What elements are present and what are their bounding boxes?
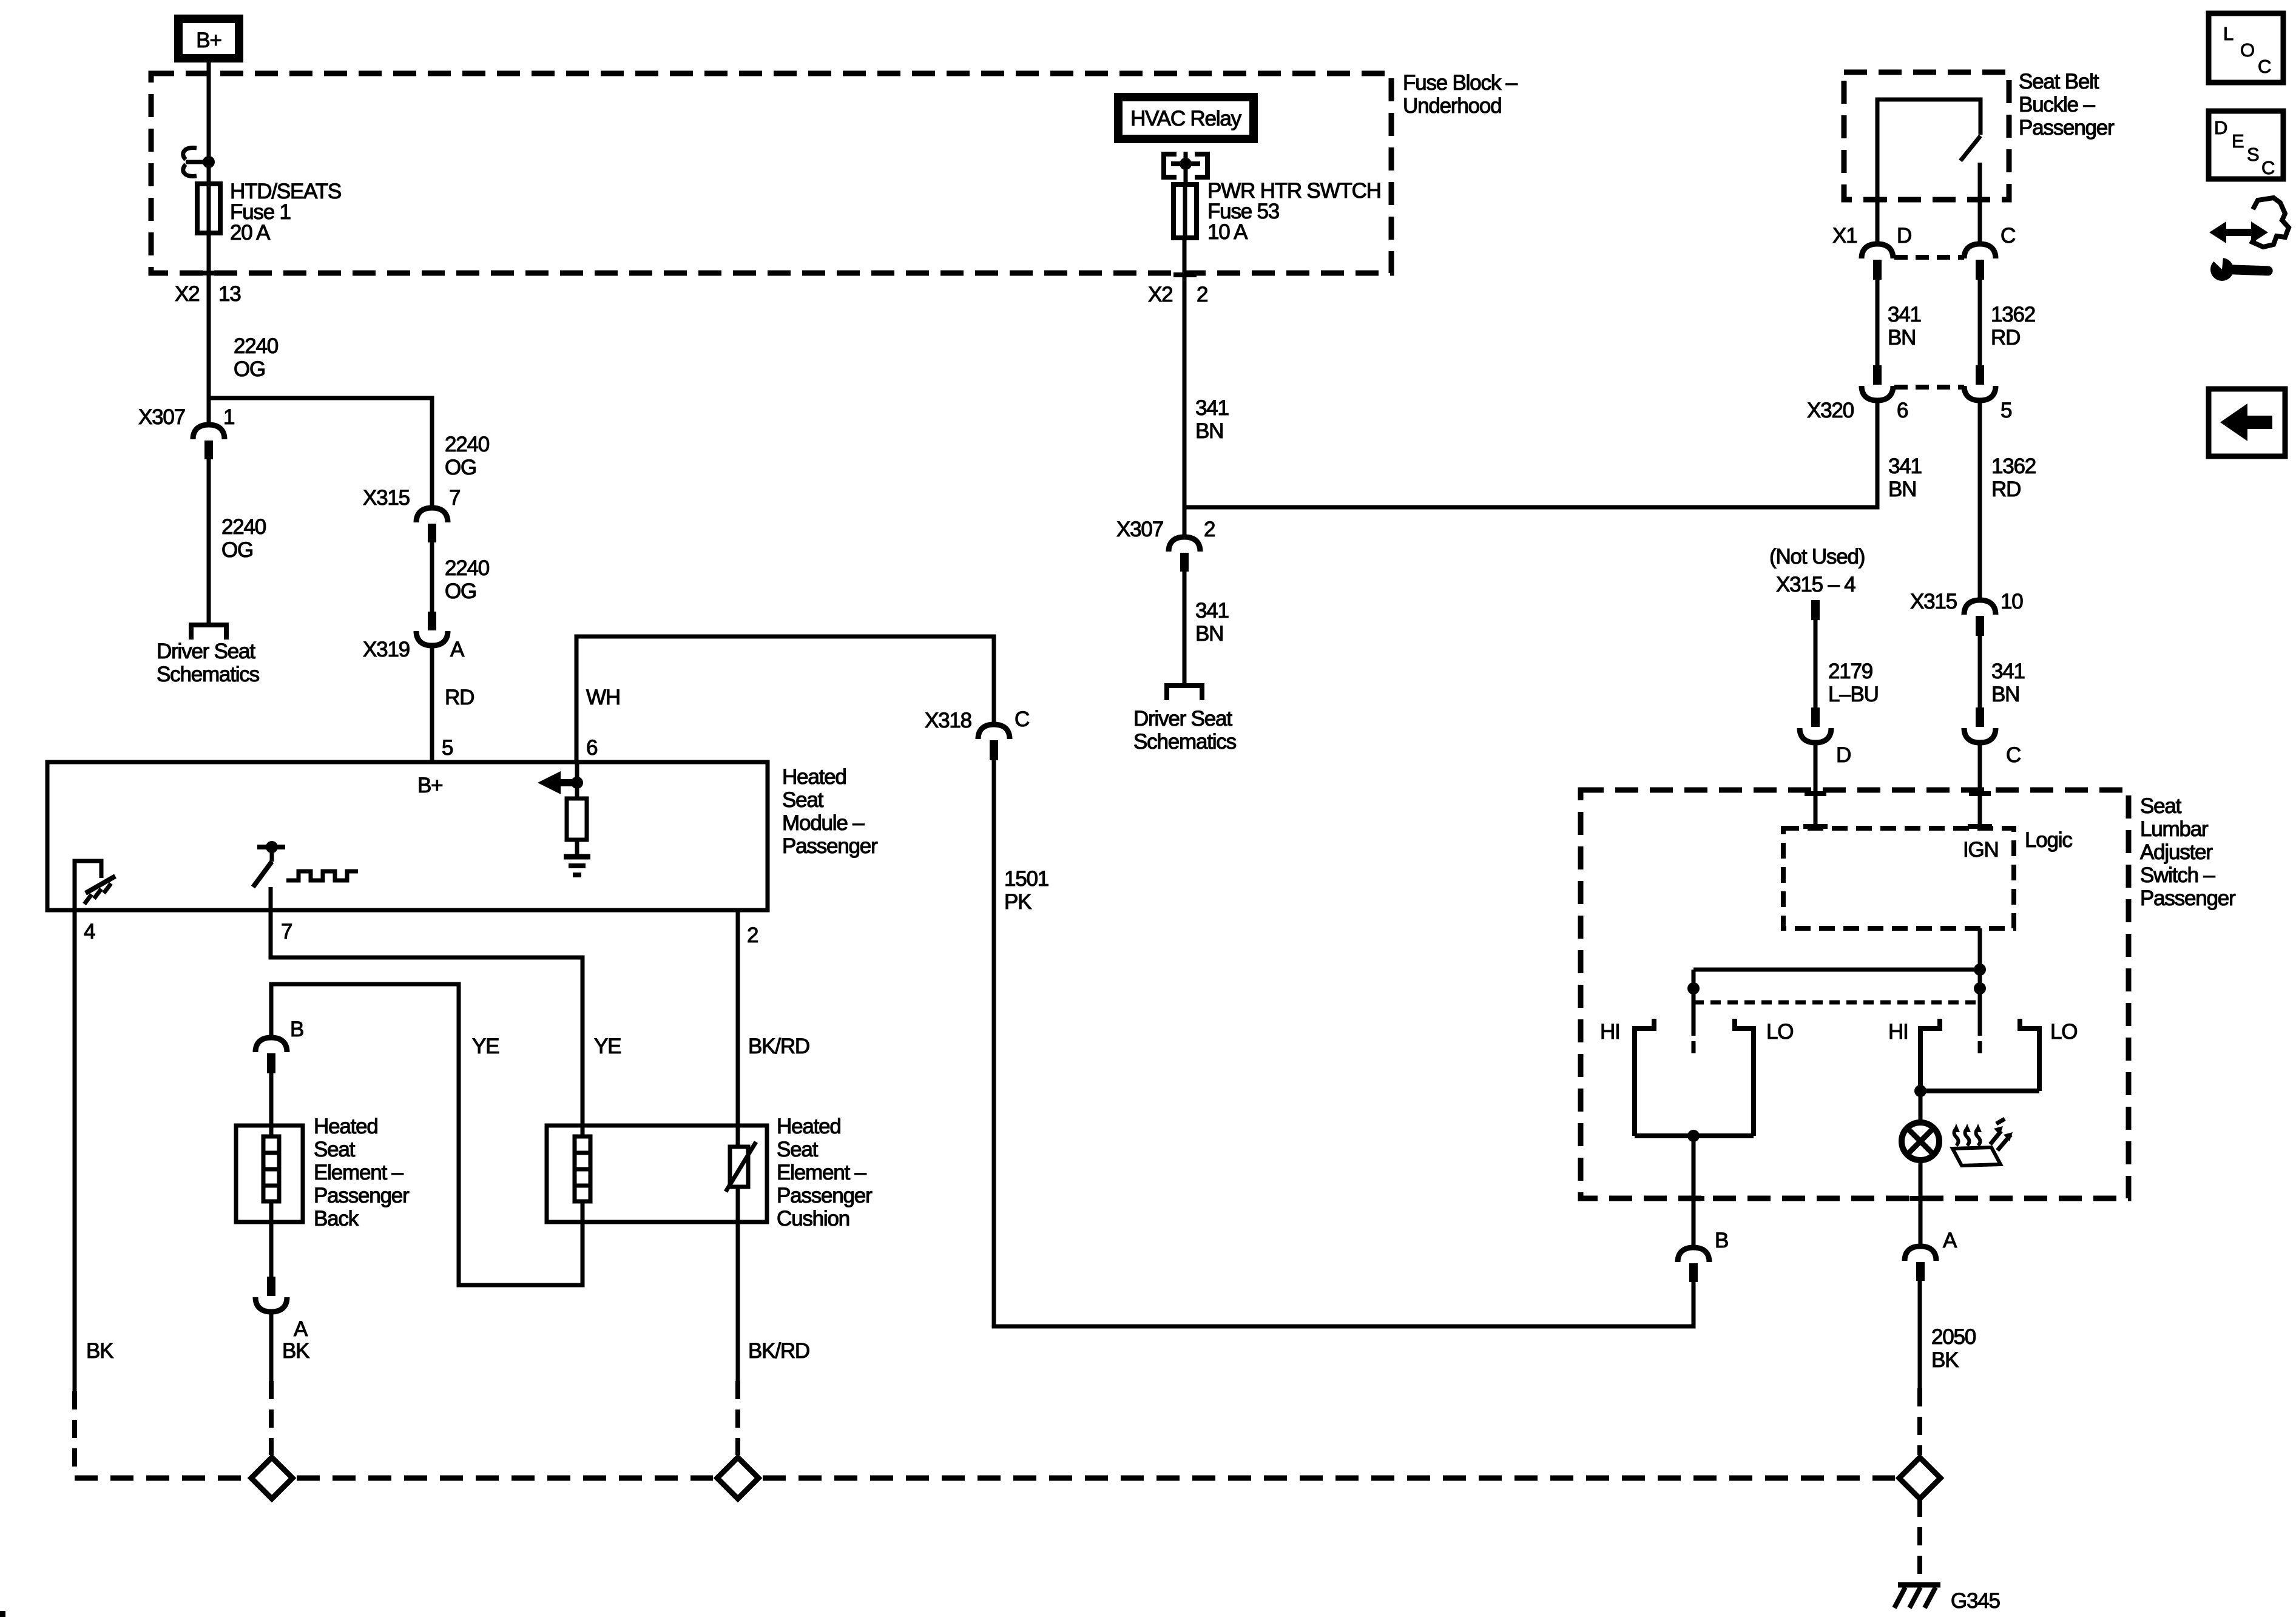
svg-text:6: 6 [586, 736, 597, 760]
wire label 341 BN [1195, 396, 1229, 443]
label X2 13 connector exit [175, 282, 241, 306]
heated seat element passenger back box [236, 1073, 303, 1222]
wire 1362 RD X1 to X320 [1980, 280, 2035, 366]
svg-text:Module –: Module – [782, 811, 865, 835]
svg-text:Seat: Seat [314, 1138, 356, 1161]
svg-text:Driver Seat: Driver Seat [157, 640, 255, 663]
connector X1 pin C [1964, 224, 2015, 280]
connector lumbar pin B [1678, 1229, 1728, 1282]
svg-text:BK/RD: BK/RD [748, 1035, 809, 1058]
svg-text:X319: X319 [363, 638, 410, 661]
svg-text:X315: X315 [363, 486, 410, 510]
wire branch X307-2 to seat belt buckle column [1184, 399, 1877, 507]
svg-text:X307: X307 [1116, 518, 1163, 541]
internal heater element wave [286, 871, 358, 880]
svg-text:2240: 2240 [221, 515, 266, 539]
svg-text:Logic: Logic [2025, 828, 2072, 852]
left switch LO contact [1735, 1019, 1793, 1136]
right switch LO contact [2020, 1019, 2077, 1091]
svg-text:RD: RD [1991, 326, 2020, 349]
ground bus dashed left drop [72, 1391, 77, 1476]
connector X320 dashed link [1894, 385, 1964, 390]
svg-text:2240: 2240 [445, 433, 490, 456]
connector X320 pin 6 [1807, 365, 1908, 422]
relay socket brackets [1164, 152, 1207, 182]
buckle switch [1868, 100, 1990, 200]
svg-text:Passenger: Passenger [777, 1184, 873, 1207]
connector X318 pin C [925, 707, 1029, 760]
wire label 2240 OG lower [221, 515, 266, 562]
junction dot relay pin [1180, 158, 1192, 170]
stub terminal X315-4 [1811, 600, 1820, 708]
svg-text:Heated: Heated [782, 765, 846, 789]
svg-text:4: 4 [84, 920, 95, 944]
svg-text:Passenger: Passenger [314, 1184, 410, 1207]
wire pin 6 WH to X318 [576, 636, 994, 762]
svg-text:Switch –: Switch – [2140, 863, 2215, 887]
svg-text:D: D [1897, 224, 1911, 248]
svg-text:B: B [290, 1018, 303, 1041]
svg-text:Heated: Heated [314, 1115, 378, 1138]
svg-text:IGN: IGN [1963, 838, 1999, 862]
left switch common [1635, 1130, 1754, 1247]
svg-text:Back: Back [314, 1207, 359, 1230]
indicator lamp [1902, 1122, 1939, 1160]
wire 1501 PK [994, 760, 1693, 1326]
wire switch feed bus [1693, 970, 1980, 1036]
svg-text:Seat: Seat [2140, 794, 2182, 818]
svg-text:Passenger: Passenger [2019, 116, 2115, 140]
svg-text:BK: BK [1931, 1348, 1959, 1372]
svg-text:HI: HI [1888, 1020, 1908, 1044]
wire fuse1 to X307 pin1 [198, 233, 221, 425]
label Fuse Block - Underhood [1403, 71, 1518, 118]
svg-text:OG: OG [445, 579, 476, 603]
wire branch to X315 pin7 [209, 398, 432, 508]
node X307 pin 1 in-line connector [138, 405, 234, 459]
wire label 2240 OG below X315 [445, 556, 490, 603]
power symbol B+ [178, 19, 239, 58]
svg-text:Schematics: Schematics [157, 663, 260, 686]
label Heated Seat Module - Passenger [782, 765, 878, 858]
svg-text:341: 341 [1195, 599, 1229, 623]
svg-text:G345: G345 [1951, 1589, 2000, 1613]
svg-text:1362: 1362 [1991, 303, 2035, 326]
wire B+ to fuse 1 [207, 58, 211, 181]
svg-text:5: 5 [442, 736, 453, 760]
logic dashed box [1783, 828, 2014, 928]
svg-text:2: 2 [1197, 283, 1207, 306]
svg-text:D: D [2214, 117, 2227, 138]
right switch HI contact [1888, 1019, 1940, 1091]
svg-text:E: E [2232, 130, 2244, 152]
svg-text:B+: B+ [417, 774, 442, 797]
icon LOC box [2209, 13, 2283, 83]
connector X1 pin D [1832, 224, 1911, 280]
wire fuse53 down to X307 pin2 [1173, 238, 1197, 537]
left switch blade stub [1692, 1041, 1696, 1053]
icon back arrow box [2209, 389, 2285, 456]
wire 341 BN below X320 [1888, 454, 1922, 501]
ground bus dashed segment 2 [297, 1476, 713, 1481]
wire logic output [1978, 928, 1982, 1036]
svg-text:C: C [2258, 56, 2271, 77]
svg-text:BN: BN [1888, 326, 1916, 349]
svg-text:2050: 2050 [1931, 1325, 1976, 1349]
svg-text:Adjuster: Adjuster [2140, 840, 2213, 864]
node X307 pin 2 in-line connector [1116, 518, 1215, 572]
wire series link cushion to back element [271, 984, 582, 1285]
connector back element pin A [255, 1201, 308, 1341]
svg-text:A: A [450, 638, 465, 661]
svg-text:B: B [1715, 1229, 1728, 1252]
svg-text:C: C [2001, 224, 2015, 248]
HVAC Relay box [1118, 97, 1254, 139]
svg-text:1: 1 [223, 405, 234, 429]
svg-text:Passenger: Passenger [2140, 886, 2236, 910]
svg-text:YE: YE [594, 1035, 621, 1058]
fuse block underhood dashed box [151, 73, 1391, 273]
svg-text:BN: BN [1195, 419, 1223, 443]
svg-text:X307: X307 [138, 405, 185, 429]
svg-text:10 A: 10 A [1207, 220, 1248, 244]
junction dots switch feed [1687, 964, 1986, 994]
svg-text:Schematics: Schematics [1133, 730, 1237, 754]
internal resistor [567, 783, 587, 856]
svg-text:341: 341 [1888, 454, 1922, 478]
svg-text:O: O [2240, 39, 2255, 61]
internal B+ arrow [538, 762, 578, 794]
svg-text:Seat Belt: Seat Belt [2019, 70, 2099, 93]
fusible link curl at tap [183, 148, 207, 177]
svg-text:(Not Used): (Not Used) [1769, 545, 1865, 569]
wire BK/RD lower [738, 1187, 809, 1455]
internal chassis ground pin4 [75, 861, 115, 910]
label Heated Seat Element - Passenger Cushion [777, 1115, 873, 1230]
wire 341 BN X1 to X320 [1877, 280, 1921, 366]
svg-text:341: 341 [1991, 660, 2025, 683]
svg-text:6: 6 [1897, 399, 1908, 422]
wire C into logic [1968, 743, 1992, 828]
junction dot pin6 [571, 777, 583, 789]
svg-text:S: S [2247, 144, 2260, 165]
page artifact dot [0, 1611, 5, 1617]
svg-text:B+: B+ [196, 29, 221, 52]
svg-text:X2: X2 [175, 282, 199, 306]
seat lumbar adjuster switch dashed box [1581, 790, 2129, 1198]
svg-text:C: C [2006, 743, 2021, 767]
seat belt buckle passenger dashed box [1844, 72, 2009, 200]
svg-text:YE: YE [472, 1035, 499, 1058]
wire label 341 BN to lumbar [1980, 636, 2025, 708]
wire buckle to X1 [1877, 200, 1980, 244]
svg-text:341: 341 [1888, 303, 1921, 326]
wire BK from back element [271, 1312, 309, 1455]
svg-text:X318: X318 [925, 709, 971, 732]
node X319 pin A in-line connector [363, 542, 465, 661]
wire label 2240 OG [234, 334, 279, 381]
label Heated Seat Element - Passenger Back [314, 1115, 410, 1230]
ground G345 [1894, 1585, 2000, 1613]
svg-text:X1: X1 [1832, 224, 1857, 248]
wire 2050 BK [1920, 1281, 1976, 1455]
svg-text:BN: BN [1991, 683, 2019, 706]
fuse F1 HTD/SEATS 20A [197, 184, 220, 233]
svg-text:341: 341 [1195, 396, 1229, 420]
svg-text:X315: X315 [1910, 590, 1957, 613]
svg-text:2: 2 [1204, 518, 1215, 541]
svg-text:Heated: Heated [777, 1115, 841, 1138]
svg-text:Underhood: Underhood [1403, 94, 1501, 118]
junction dot on B+ feed [203, 156, 215, 168]
connector back element pin B [255, 1018, 303, 1073]
svg-text:HI: HI [1600, 1020, 1620, 1044]
label PWR HTR SWTCH Fuse 53 10 A [1207, 179, 1381, 244]
svg-text:13: 13 [218, 282, 241, 306]
svg-text:LO: LO [1766, 1020, 1793, 1044]
cushion element heater symbol [575, 1136, 590, 1201]
wire X307-1 down [207, 459, 211, 623]
svg-text:Seat: Seat [777, 1138, 819, 1161]
off-page bracket Driver Seat Schematics middle [1133, 686, 1237, 754]
svg-text:WH: WH [586, 686, 620, 709]
svg-text:X315 – 4: X315 – 4 [1776, 573, 1855, 596]
svg-text:Element –: Element – [314, 1161, 404, 1184]
pin numbers 4 7 2 5 6 [84, 736, 758, 947]
connector X320 pin 5 [1964, 365, 2011, 422]
svg-text:2240: 2240 [234, 334, 279, 358]
wire label 2240 OG branch [445, 433, 490, 479]
svg-text:X320: X320 [1807, 399, 1854, 422]
svg-text:LO: LO [2050, 1020, 2077, 1044]
back element heater symbol [263, 1136, 279, 1201]
splice diamond S1 [251, 1457, 292, 1499]
node X315 pin 7 in-line connector [363, 486, 460, 542]
icon heated seat [1953, 1119, 2013, 1166]
label HTD/SEATS Fuse 1 20 A [230, 180, 341, 245]
svg-text:BN: BN [1195, 622, 1223, 646]
svg-text:1362: 1362 [1991, 454, 2036, 478]
splice diamond S3 [1899, 1457, 1940, 1499]
svg-text:RD: RD [445, 686, 474, 709]
svg-text:X2: X2 [1148, 283, 1172, 306]
label IGN and Logic [1963, 828, 2072, 862]
svg-text:Seat: Seat [782, 788, 824, 812]
connector X1 dashed link [1894, 255, 1964, 260]
connector lumbar pin A [1905, 1229, 1957, 1281]
svg-text:L: L [2223, 23, 2234, 44]
svg-text:A: A [1943, 1229, 1957, 1252]
label Seat Belt Buckle - Passenger [2019, 70, 2115, 140]
internal ground [564, 857, 590, 875]
wire 1362 RD below X320 [1980, 400, 2036, 600]
svg-text:A: A [294, 1317, 308, 1341]
wire lamp to pin A [1909, 1160, 1931, 1246]
svg-text:OG: OG [221, 538, 253, 562]
icon service wrench with arrows [2206, 198, 2289, 281]
label X2 2 connector exit [1148, 283, 1207, 306]
svg-text:C: C [1015, 707, 1029, 731]
wire pin 7 to cushion element [271, 910, 582, 1136]
fuse F53 PWR HTR SWTCH 10A [1173, 184, 1197, 238]
svg-text:1501: 1501 [1004, 867, 1048, 891]
svg-text:Cushion: Cushion [777, 1207, 849, 1230]
svg-text:10: 10 [2001, 590, 2023, 613]
svg-text:Fuse Block –: Fuse Block – [1403, 71, 1518, 95]
ground bus dashed segment 1 [75, 1476, 247, 1481]
wire label 341 BN lower [1184, 572, 1229, 683]
svg-text:RD: RD [1991, 478, 2021, 501]
svg-text:C: C [2261, 157, 2275, 178]
svg-text:2240: 2240 [445, 556, 490, 580]
svg-text:Buckle –: Buckle – [2019, 93, 2095, 116]
svg-text:Element –: Element – [777, 1161, 867, 1184]
svg-text:5: 5 [2001, 399, 2011, 422]
icon DESC box [2209, 111, 2283, 179]
svg-text:BN: BN [1888, 478, 1916, 501]
svg-text:Passenger: Passenger [782, 834, 878, 858]
ground lead dashed to G345 [1917, 1499, 1922, 1582]
svg-text:20 A: 20 A [230, 221, 271, 245]
wire pin 4 BK [75, 910, 113, 1391]
svg-text:L–BU: L–BU [1828, 683, 1879, 706]
wire label 2179 L-BU [1828, 660, 1879, 706]
svg-text:2: 2 [747, 923, 758, 947]
svg-text:BK/RD: BK/RD [748, 1339, 809, 1363]
heated seat module passenger box [47, 762, 768, 910]
off-page bracket Driver Seat Schematics [157, 625, 260, 686]
svg-text:BK: BK [282, 1339, 309, 1363]
cushion thermistor [726, 1142, 756, 1192]
svg-text:D: D [1836, 743, 1851, 767]
label (Not Used) X315-4 [1769, 545, 1865, 596]
label Seat Lumbar Adjuster Switch - Passenger [2140, 794, 2236, 910]
right switch common [1914, 1085, 2039, 1122]
wire D into logic [1803, 743, 1828, 828]
splice diamond S2 [717, 1457, 758, 1499]
svg-text:7: 7 [449, 486, 460, 510]
connector lumbar pin C [1964, 707, 2021, 767]
connector lumbar pin D [1800, 707, 1851, 767]
wire RD to module pin5 [432, 646, 474, 762]
internal thermal switch [253, 841, 285, 910]
svg-text:2179: 2179 [1828, 660, 1872, 683]
connector X315 pin 10 [1910, 590, 2023, 636]
right switch blade stub [1978, 1041, 1982, 1053]
svg-text:Lumbar: Lumbar [2140, 817, 2209, 841]
left switch HI contact [1600, 1019, 1654, 1136]
heated seat element passenger cushion box [547, 1126, 767, 1222]
svg-text:BK: BK [86, 1339, 113, 1363]
mechanical coupling dashed [1693, 1001, 1980, 1005]
wire pin 2 BK/RD [738, 910, 809, 1147]
svg-text:Driver Seat: Driver Seat [1133, 707, 1232, 731]
svg-text:HVAC Relay: HVAC Relay [1130, 107, 1242, 130]
svg-text:7: 7 [281, 920, 292, 944]
svg-text:OG: OG [445, 456, 476, 479]
svg-text:PK: PK [1004, 890, 1032, 914]
svg-text:OG: OG [234, 357, 265, 381]
ground bus dashed segment 3 [763, 1476, 1895, 1481]
